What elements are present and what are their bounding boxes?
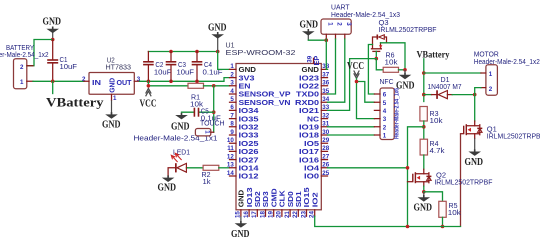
svg-text:IRLML2502TRPBF: IRLML2502TRPBF bbox=[379, 25, 438, 34]
svg-text:VBattery: VBattery bbox=[46, 96, 104, 110]
svg-text:GND: GND bbox=[414, 203, 433, 214]
capacitor C4 0.1uF bbox=[192, 52, 223, 82]
svg-text:22: 22 bbox=[292, 211, 299, 218]
connector BATTERY Header-Male-2.54_1x2 bbox=[0, 43, 49, 88]
wire R4 bottom to Q2 drain bbox=[423, 155, 425, 169]
svg-text:7: 7 bbox=[230, 112, 234, 119]
svg-text:10uF: 10uF bbox=[177, 67, 195, 76]
ground GND below ESP pin15 bbox=[231, 216, 250, 240]
svg-text:1: 1 bbox=[113, 95, 117, 102]
wire IO19 to NFC pin2 bbox=[328, 126, 375, 128]
wire GND to UART pin1 junction bbox=[308, 39, 326, 41]
svg-text:1: 1 bbox=[203, 130, 210, 134]
wire IO18 to NFC pin1 bbox=[328, 134, 375, 136]
svg-text:17: 17 bbox=[251, 211, 258, 218]
ground GND left of UART bbox=[300, 19, 319, 40]
wire VCC to NFC pin3 bbox=[357, 78, 375, 118]
wire motor pin2 to node bbox=[475, 88, 481, 95]
ground GND below LED1 bbox=[158, 175, 177, 193]
svg-text:14: 14 bbox=[227, 170, 234, 177]
wire UART pin1 to ESP pin38 bbox=[326, 39, 327, 69]
svg-text:1N4007 M7: 1N4007 M7 bbox=[428, 82, 462, 91]
resistor R6 10k bbox=[383, 50, 405, 72]
svg-text:28: 28 bbox=[322, 145, 329, 152]
svg-text:IO12: IO12 bbox=[239, 172, 259, 181]
ESP left pin numbers bbox=[227, 63, 234, 177]
svg-text:GND: GND bbox=[43, 17, 62, 28]
svg-text:11: 11 bbox=[227, 145, 234, 152]
svg-text:IO2: IO2 bbox=[310, 192, 319, 207]
LED LED1 bbox=[168, 147, 190, 176]
svg-text:VCC: VCC bbox=[140, 98, 157, 109]
ground GND below R6 bbox=[396, 70, 415, 92]
wire VCC rail to R1 bbox=[148, 85, 188, 87]
wire UART pin3 to RXD0 bbox=[328, 39, 345, 102]
ESP right pin labels bbox=[295, 65, 320, 181]
svg-text:GND: GND bbox=[208, 22, 227, 33]
connector TOUCH Header-Male-2.54_1x1 bbox=[134, 119, 225, 143]
svg-text:GND: GND bbox=[108, 77, 117, 93]
connector UART Header-Male-2.54_1x3 bbox=[321, 3, 400, 39]
resistor R3 10k bbox=[420, 107, 443, 126]
svg-text:3: 3 bbox=[383, 116, 387, 123]
svg-text:1: 1 bbox=[20, 79, 24, 86]
ESP bottom pin stubs bbox=[241, 210, 315, 217]
svg-text:2: 2 bbox=[383, 124, 387, 131]
svg-text:VCC: VCC bbox=[347, 61, 364, 72]
wire Q3 gate to junction bbox=[375, 51, 377, 58]
svg-text:2: 2 bbox=[230, 71, 234, 78]
supply label VBattery left bbox=[46, 81, 104, 109]
wire R5 bottom to bottom bus bbox=[442, 217, 444, 226]
capacitor C1 10uF bbox=[47, 40, 77, 82]
svg-text:16: 16 bbox=[243, 211, 250, 218]
wire UART pin2 to TXD0 bbox=[328, 39, 336, 94]
svg-text:Header-Male-2.54_1x2: Header-Male-2.54_1x2 bbox=[0, 50, 49, 59]
resistor R2 1k bbox=[188, 165, 230, 186]
supply VCC left bbox=[140, 81, 157, 109]
ground GND above ESP32 bbox=[208, 22, 227, 51]
node junction VBattery-motor bbox=[422, 71, 426, 75]
ESP bottom pin labels rotated bbox=[237, 187, 320, 207]
wire VCC branch to NFC pin5 bbox=[357, 82, 375, 103]
svg-text:3: 3 bbox=[345, 22, 352, 26]
svg-text:10k: 10k bbox=[430, 116, 443, 125]
ground GND left of C5 bbox=[171, 113, 190, 133]
svg-text:Header-Male-2.54_1x1: Header-Male-2.54_1x1 bbox=[134, 133, 218, 142]
connector NFC Header-Male-2.54_1x6 bbox=[374, 77, 400, 140]
diode D1 1N4007 M7 bbox=[424, 75, 475, 99]
wire node A to gate-net vertical bbox=[408, 127, 424, 227]
wire battery pin2 to GND node bbox=[28, 40, 53, 66]
wire capacitor top rail (GND) bbox=[148, 51, 217, 53]
ESP left pin stubs bbox=[230, 69, 237, 176]
supply label VBattery right bbox=[417, 49, 450, 101]
wire R3 bottom to node A and R4 bbox=[423, 121, 425, 139]
svg-text:37: 37 bbox=[322, 71, 329, 78]
svg-text:6: 6 bbox=[383, 92, 387, 99]
wire Q3 gate junction to IO21 bbox=[328, 59, 377, 111]
wire Q1 gate net down (dark) bbox=[460, 134, 462, 227]
svg-text:IO0: IO0 bbox=[304, 172, 319, 181]
svg-text:29: 29 bbox=[322, 137, 329, 144]
svg-text:Header-Male-2.54_1x3: Header-Male-2.54_1x3 bbox=[331, 10, 400, 19]
svg-text:GND: GND bbox=[171, 121, 190, 132]
svg-text:9: 9 bbox=[230, 129, 234, 136]
svg-text:ESP-WROOM-32: ESP-WROOM-32 bbox=[226, 48, 296, 57]
resistor R1 10k bbox=[188, 83, 204, 108]
svg-text:1: 1 bbox=[489, 71, 493, 78]
svg-text:TOUCH: TOUCH bbox=[200, 119, 225, 128]
svg-text:10uF: 10uF bbox=[154, 67, 172, 76]
svg-text:18: 18 bbox=[259, 211, 266, 218]
transistor Q2 IRLML2502TRPBF bbox=[408, 169, 493, 187]
svg-text:EP: EP bbox=[312, 56, 321, 66]
node junction GND-C1-battery bbox=[51, 38, 55, 42]
svg-text:10uF: 10uF bbox=[60, 62, 78, 71]
svg-text:10k: 10k bbox=[448, 208, 461, 217]
svg-text:Header-Male-2.54_1x2: Header-Male-2.54_1x2 bbox=[474, 57, 540, 66]
svg-text:IRLML2502TRPBF: IRLML2502TRPBF bbox=[434, 178, 493, 187]
svg-text:3: 3 bbox=[230, 80, 234, 87]
svg-text:GND: GND bbox=[231, 229, 250, 240]
svg-text:4: 4 bbox=[230, 88, 234, 95]
svg-text:Header-Male-2.54_1x6: Header-Male-2.54_1x6 bbox=[394, 88, 401, 139]
resistor R5 10k bbox=[439, 201, 461, 217]
wire to MOTOR pin1 bbox=[424, 72, 481, 74]
svg-text:27: 27 bbox=[322, 153, 329, 160]
svg-text:20: 20 bbox=[276, 211, 283, 218]
node junction D1 cathode-motor2-Q1 bbox=[473, 93, 477, 97]
svg-text:2: 2 bbox=[489, 86, 493, 93]
svg-text:GND: GND bbox=[300, 19, 319, 30]
ground GND below Q1 bbox=[465, 138, 484, 168]
ESP left pin labels bbox=[239, 65, 291, 181]
svg-text:36: 36 bbox=[322, 80, 329, 87]
svg-text:GND: GND bbox=[465, 157, 484, 168]
wire R1 to ESP EN bbox=[204, 85, 230, 87]
wire IO4 to gate-net vertical bbox=[328, 167, 408, 169]
wire Q3 gate junction down to R6 left bbox=[376, 59, 383, 70]
svg-text:12: 12 bbox=[227, 153, 234, 160]
svg-text:5: 5 bbox=[383, 100, 387, 107]
capacitor C2 10uF bbox=[143, 52, 172, 82]
svg-text:NFC: NFC bbox=[380, 77, 394, 86]
wire Q2 node to R5 top bbox=[424, 192, 443, 202]
wire battery pin1 to U2 IN bbox=[33, 80, 84, 82]
wire node to Q1 drain bbox=[474, 95, 476, 121]
capacitor C3 10uF bbox=[166, 52, 195, 82]
svg-text:10: 10 bbox=[227, 137, 234, 144]
svg-text:2: 2 bbox=[20, 64, 24, 71]
node junction C1-battery-VBattery bbox=[51, 80, 55, 84]
svg-text:23: 23 bbox=[300, 211, 307, 218]
svg-text:32: 32 bbox=[322, 112, 329, 119]
ground GND top-left bbox=[43, 17, 62, 40]
svg-text:IN: IN bbox=[92, 78, 101, 87]
ESP right pin numbers bbox=[322, 63, 329, 177]
svg-text:1: 1 bbox=[383, 133, 387, 140]
svg-text:GND: GND bbox=[158, 183, 177, 194]
ESP right pin stubs bbox=[321, 69, 327, 176]
node junction D1 anode bbox=[422, 93, 426, 97]
svg-text:21: 21 bbox=[284, 211, 291, 218]
svg-text:13: 13 bbox=[227, 162, 234, 169]
svg-text:GND: GND bbox=[102, 119, 121, 130]
connector MOTOR Header-Male-2.54_1x2 bbox=[474, 49, 540, 95]
regulator U2 HT7833 bbox=[82, 56, 141, 102]
svg-text:HT7833: HT7833 bbox=[106, 63, 132, 72]
svg-text:8: 8 bbox=[230, 121, 234, 128]
svg-text:25: 25 bbox=[322, 170, 329, 177]
svg-text:IRLML2502TRPBF: IRLML2502TRPBF bbox=[487, 132, 540, 141]
svg-text:VBattery: VBattery bbox=[417, 49, 450, 59]
svg-text:6: 6 bbox=[230, 104, 234, 111]
svg-text:10k: 10k bbox=[385, 57, 398, 66]
svg-text:4.7k: 4.7k bbox=[430, 146, 445, 155]
wire GND drop to ESP pin1 bbox=[218, 52, 230, 70]
svg-text:1: 1 bbox=[327, 22, 334, 26]
ground GND below Q2 bbox=[414, 192, 433, 214]
supply VCC mid bbox=[347, 61, 364, 78]
transistor Q1 IRLML2502TRPBF bbox=[461, 121, 540, 141]
wire 3V3 rail U2 OUT to ESP 3V3 bbox=[140, 78, 230, 82]
node junction R6-Q3 source-GND bbox=[403, 68, 407, 72]
wire bottom bus IO2 to Q1 gate net bbox=[315, 216, 461, 226]
transistor Q3 IRLML2502TRPBF bbox=[371, 18, 437, 52]
svg-text:5: 5 bbox=[230, 96, 234, 103]
svg-text:19: 19 bbox=[268, 211, 275, 218]
module U1 ESP-WROOM-32 bbox=[226, 40, 322, 209]
svg-text:1: 1 bbox=[230, 63, 234, 70]
svg-text:OUT: OUT bbox=[117, 78, 132, 87]
svg-text:1k: 1k bbox=[203, 177, 211, 186]
wire Q3 drain to NFC pin6 bbox=[368, 45, 374, 95]
svg-text:2: 2 bbox=[336, 22, 343, 26]
capacitor C5 0.1uF bbox=[182, 107, 222, 123]
wire Q3 source to R6 node bbox=[381, 43, 406, 70]
resistor R4 4.7k bbox=[420, 139, 445, 155]
svg-text:4: 4 bbox=[383, 108, 387, 115]
wire EN vertical to C5/TOUCH bbox=[213, 86, 215, 132]
pin EP 39 top bbox=[307, 55, 321, 65]
ground GND below U2 bbox=[102, 100, 121, 130]
ESP bottom pin numbers rotated bbox=[235, 211, 316, 218]
node junction Q2 source-GND-R5 bbox=[423, 186, 425, 192]
